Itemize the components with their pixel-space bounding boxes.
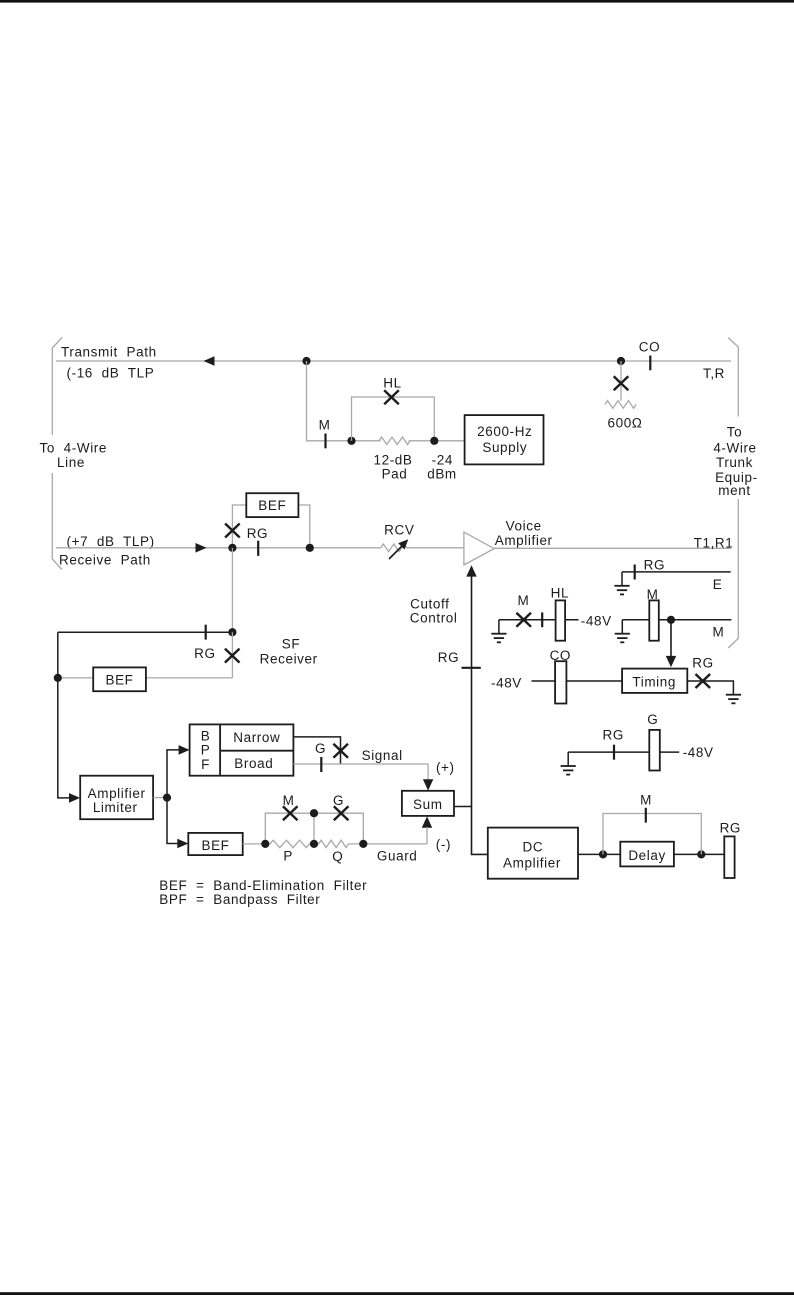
resistor 12-dB pad (379, 437, 410, 444)
op-amp Voice Amplifier (464, 519, 553, 565)
svg-text:P: P (201, 743, 211, 758)
svg-text:RG: RG (644, 557, 665, 572)
label 12-dB Pad (373, 452, 412, 481)
label Transmit Path (61, 345, 157, 381)
ground (timing output) (726, 695, 741, 704)
block 2600-Hz Supply (465, 415, 544, 464)
wire lower BEF row (58, 677, 233, 679)
svg-text:Cutoff: Cutoff (410, 597, 449, 612)
svg-text:Supply: Supply (482, 440, 527, 455)
svg-text:(+7 dB TLP): (+7 dB TLP) (67, 534, 155, 549)
wire broad/signal line (293, 764, 428, 781)
arrow guard into Sum (422, 816, 432, 827)
svg-text:(+): (+) (436, 760, 455, 775)
wire timing lead (532, 680, 623, 682)
svg-text:B: B (201, 728, 211, 743)
svg-text:-24: -24 (432, 452, 453, 467)
svg-text:M: M (640, 792, 652, 807)
svg-text:To 4-Wire: To 4-Wire (40, 440, 108, 455)
node guard loop junction (310, 809, 318, 817)
relay coil CO (550, 648, 571, 704)
ground (M relay) (615, 620, 630, 643)
svg-text:600Ω: 600Ω (607, 416, 642, 431)
label -24 dBm (427, 452, 457, 481)
node guard mid junction (310, 840, 318, 848)
wire to BPF (167, 750, 180, 798)
svg-text:Voice: Voice (506, 519, 542, 534)
node guard right junction (359, 840, 367, 848)
wire E lead (622, 571, 731, 573)
svg-text:dBm: dBm (427, 467, 457, 482)
wire voice amp output (494, 547, 731, 549)
arrow receive direction (196, 543, 207, 553)
wire to guard BEF (167, 798, 178, 844)
svg-text:T1,R1: T1,R1 (694, 535, 734, 550)
page bottom rule (0, 1292, 794, 1295)
contact make tick (HL relay lead) (541, 612, 543, 627)
label Cutoff Control (410, 597, 458, 626)
svg-text:(-16 dB TLP: (-16 dB TLP (67, 366, 155, 381)
resistor 600 ohm (605, 401, 636, 409)
svg-text:2600-Hz: 2600-Hz (477, 424, 532, 439)
contact break on 600-ohm branch (614, 376, 629, 390)
wire SF make path (58, 631, 233, 633)
svg-text:Broad: Broad (234, 756, 273, 771)
svg-text:BPF = Bandpass Filter: BPF = Bandpass Filter (159, 892, 320, 907)
arrow into guard BEF (177, 839, 188, 849)
block Sum (402, 791, 454, 816)
svg-text:M: M (319, 418, 331, 433)
svg-text:M: M (712, 625, 724, 640)
wire left drop to amplifier-limiter (58, 632, 70, 798)
wire DC amp output (578, 853, 724, 855)
resistor Q (319, 840, 349, 847)
svg-text:To: To (727, 424, 742, 439)
wire HL bypass loop (352, 397, 435, 441)
svg-text:RG: RG (194, 646, 215, 661)
node guard left junction (261, 840, 269, 848)
svg-text:BEF: BEF (201, 838, 229, 853)
svg-text:M: M (283, 793, 295, 808)
svg-text:M: M (517, 593, 529, 608)
wire 600-ohm branch (620, 361, 622, 401)
svg-text:-48V: -48V (683, 745, 714, 760)
contact M make (delay loop) (640, 792, 652, 822)
contact G break (guard loop) (333, 793, 348, 820)
svg-text:P: P (283, 848, 293, 863)
svg-text:RCV: RCV (384, 522, 414, 537)
svg-text:G: G (647, 712, 658, 727)
svg-text:Pad: Pad (382, 467, 408, 482)
wire timing output (687, 681, 733, 694)
label SF Receiver (260, 636, 318, 666)
svg-text:Amplifier: Amplifier (88, 786, 146, 801)
wire G relay lead (568, 751, 679, 753)
svg-text:Delay: Delay (628, 848, 666, 863)
label To 4-Wire Trunk Equipment (713, 424, 757, 498)
wire sum to cutoff line (454, 806, 472, 808)
node delay input junction (599, 850, 607, 858)
svg-text:ment: ment (718, 483, 750, 498)
svg-text:-48V: -48V (581, 613, 612, 628)
wire receive to SF receiver branch (231, 548, 233, 632)
contact M break (HL relay lead) (516, 593, 531, 627)
svg-text:-48V: -48V (491, 675, 522, 690)
block Timing (622, 669, 687, 693)
contact G make (broad output) (315, 741, 326, 772)
wire receive path (56, 547, 464, 549)
relay coil RG (720, 820, 741, 878)
svg-text:RG: RG (692, 656, 713, 671)
wire SF break path (231, 632, 233, 678)
block BEF (SF input) (93, 667, 146, 691)
block DC Amplifier (488, 828, 578, 879)
node 600-ohm junction (617, 357, 625, 365)
wire narrow output (293, 737, 340, 764)
svg-text:Q: Q (332, 849, 343, 864)
contact RG break (timing output) (692, 656, 713, 689)
wire HL relay lead (499, 619, 579, 621)
ground (HL relay) (491, 620, 506, 643)
block BEF (receive) (246, 493, 298, 517)
block Delay (620, 842, 674, 867)
svg-text:Timing: Timing (632, 674, 676, 689)
contact RG make (G relay lead) (602, 728, 623, 760)
svg-text:Amplifier: Amplifier (495, 533, 553, 548)
svg-text:BEF: BEF (258, 498, 286, 513)
svg-text:RG: RG (720, 820, 741, 835)
arrow transmit direction (204, 356, 215, 366)
contact RG make (cutoff control) (438, 650, 481, 668)
node receive-BEF right junction (306, 544, 314, 552)
label Receive Path (59, 534, 155, 567)
svg-text:CO: CO (639, 340, 660, 355)
attenuator RCV (381, 522, 415, 559)
wire guard bypass loop (265, 813, 363, 844)
relay coil HL (551, 586, 569, 641)
svg-text:BEF: BEF (105, 673, 133, 688)
svg-text:Guard: Guard (377, 849, 418, 864)
contact HL break (383, 376, 401, 405)
svg-text:(-): (-) (436, 837, 451, 852)
svg-text:Receiver: Receiver (260, 652, 318, 667)
left 4-wire line brace (52, 338, 62, 570)
svg-text:4-Wire: 4-Wire (713, 441, 756, 456)
node receive-BEF left junction (228, 544, 236, 552)
svg-text:Trunk: Trunk (716, 455, 753, 470)
svg-text:RG: RG (602, 728, 623, 743)
svg-text:Limiter: Limiter (93, 800, 138, 815)
wire transmit path (56, 360, 731, 362)
arrow cutoff into amplifier (466, 565, 476, 576)
svg-text:Narrow: Narrow (233, 730, 280, 745)
resistor P (270, 840, 309, 847)
svg-text:T,R: T,R (703, 366, 725, 381)
svg-text:RG: RG (438, 650, 459, 665)
svg-text:HL: HL (383, 376, 401, 391)
ground (G relay) (561, 752, 576, 775)
wire guard riser (426, 827, 428, 844)
wire amplifier-limiter output (153, 797, 167, 799)
wire M relay lead (622, 619, 731, 621)
contact RG make (receive path) (247, 526, 268, 556)
svg-text:Line: Line (57, 455, 85, 470)
svg-text:Transmit Path: Transmit Path (61, 345, 157, 360)
svg-text:SF: SF (282, 636, 300, 651)
block Amplifier Limiter (80, 776, 153, 820)
wire cutoff control (472, 567, 488, 854)
node SF branch junction (228, 628, 236, 636)
node lower BEF junction (54, 674, 62, 682)
svg-text:Sum: Sum (413, 797, 443, 812)
contact M make (319, 418, 331, 449)
ground (E lead) (614, 572, 629, 595)
svg-text:F: F (201, 757, 210, 772)
wire M bypass loop (delay) (603, 814, 701, 855)
wire BEF bypass loop (232, 505, 309, 548)
svg-text:RG: RG (247, 526, 268, 541)
contact break on BEF bypass (225, 524, 240, 538)
arrow into amplifier-limiter (69, 793, 80, 803)
svg-text:12-dB: 12-dB (373, 452, 412, 467)
svg-text:DC: DC (523, 840, 544, 855)
node transmit branch junction (302, 357, 310, 365)
contact CO make (639, 340, 660, 371)
relay coil M (647, 587, 659, 641)
svg-text:Amplifier: Amplifier (503, 855, 561, 870)
node pad right junction (430, 437, 438, 445)
block BEF (guard) (188, 833, 242, 855)
svg-text:Control: Control (410, 611, 458, 626)
arrow signal into Sum (423, 779, 433, 790)
right trunk brace (728, 338, 738, 648)
svg-text:E: E (713, 577, 723, 592)
node pad left junction (347, 437, 355, 445)
svg-text:HL: HL (551, 586, 569, 601)
block BPF Narrow/Broad (190, 724, 294, 775)
node delay output junction (697, 850, 705, 858)
node amplifier-limiter output junction (163, 794, 171, 802)
contact break (narrow output) (333, 744, 348, 758)
page top rule (0, 0, 794, 3)
svg-text:Signal: Signal (362, 748, 403, 763)
relay coil G (647, 712, 660, 770)
arrow into BPF (179, 745, 190, 755)
node M lead junction (667, 616, 675, 624)
contact RG make (E lead) (635, 557, 665, 579)
wire transmit to supply branch (307, 361, 465, 441)
wire arrow M to Timing (666, 620, 676, 668)
svg-text:Receive Path: Receive Path (59, 552, 151, 567)
label To 4-Wire Line (40, 440, 108, 470)
wire guard line (243, 843, 427, 845)
contact M break (guard loop) (283, 793, 298, 820)
contact RG make (SF branch) (194, 625, 215, 662)
svg-text:G: G (315, 741, 326, 756)
contact break (SF branch) (225, 649, 240, 663)
